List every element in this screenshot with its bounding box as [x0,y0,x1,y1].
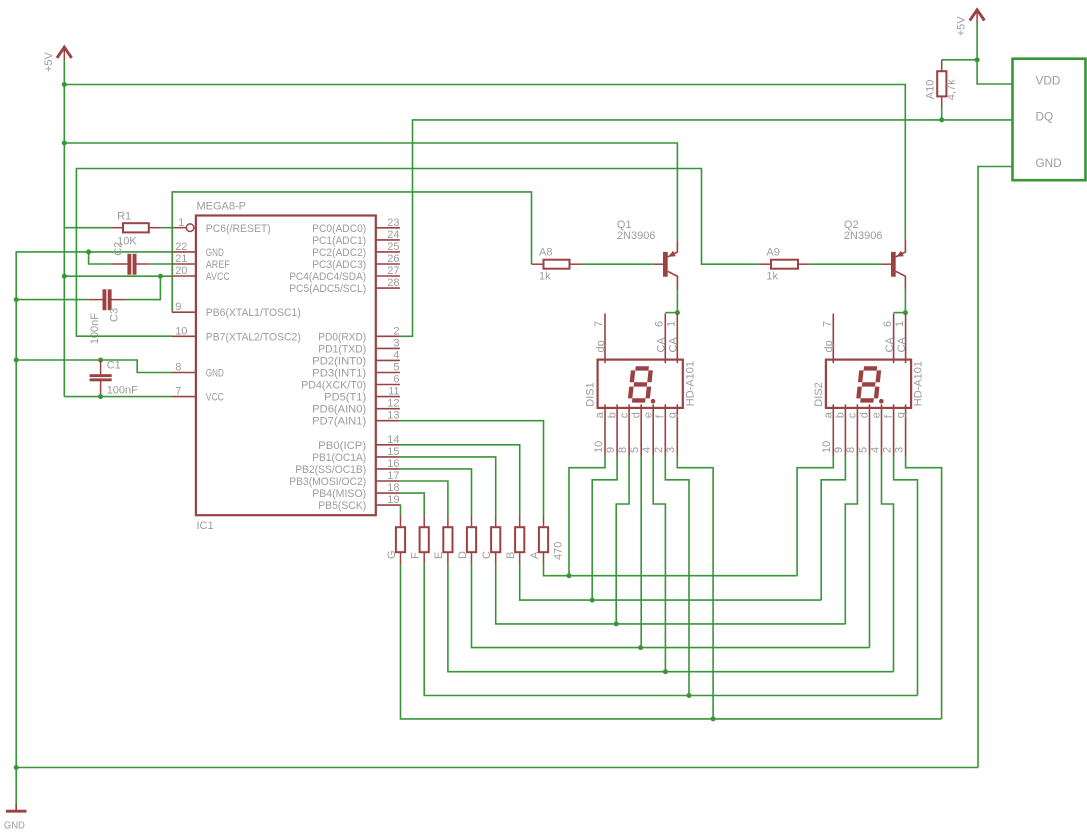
svg-text:PB2(SS/OC1B): PB2(SS/OC1B) [295,464,366,476]
svg-text:1: 1 [894,321,906,327]
wire +5V second line to Q1 emitter [64,143,677,240]
IC1 right pin 25 PC2(ADC2) [312,241,400,259]
IC1 right pin 19 PB5(SCK) [318,494,400,512]
svg-text:16: 16 [387,458,399,470]
svg-text:22: 22 [175,241,187,253]
svg-text:a: a [594,411,606,418]
svg-text:HD-A101: HD-A101 [684,361,696,406]
svg-text:4: 4 [393,349,399,361]
junction +5V rail / AVCC [62,274,67,279]
svg-text:1k: 1k [539,271,551,283]
IC1 right pin 15 PB1(OC1A) [312,446,400,464]
wire GND pin22 line [16,252,172,806]
junction C1 bottom / VCC [98,394,103,399]
IC1 right pin 2 PD0(RXD) [318,325,400,343]
junction segment b / DIS1 [590,598,595,603]
junction GND bottom [14,765,19,770]
wire PB7 net (pin10 to A9) [76,169,759,337]
svg-text:G: G [386,550,398,559]
svg-text:8: 8 [845,447,857,453]
svg-text:8: 8 [175,362,181,374]
resistor A9 [760,247,810,283]
svg-text:IC1: IC1 [197,520,214,532]
IC1 left pin 20 AVCC [172,265,230,283]
svg-text:PD7(AIN1): PD7(AIN1) [312,416,366,428]
svg-text:20: 20 [175,265,187,277]
svg-text:+5V: +5V [43,51,55,72]
DIS1 bottom pins a-g (10,9,8,5,4,2,3) [593,404,679,455]
wire IC pin 16 to resistor D [400,469,472,515]
ground symbol GND [4,804,27,832]
svg-text:17: 17 [387,470,399,482]
svg-text:e: e [871,412,883,418]
wire DIS1 c drop [616,456,629,624]
svg-text:VCC: VCC [206,392,224,404]
svg-text:8: 8 [617,447,629,453]
svg-text:5: 5 [629,447,641,453]
svg-text:dp: dp [595,340,607,352]
svg-text:4,7k: 4,7k [945,79,957,100]
svg-text:11: 11 [388,386,399,398]
capacitor C2 [112,242,149,275]
IC1 right pin 3 PD1(TXD) [318,337,400,355]
IC1 left pin 9 PB6(XTAL1/TOSC1) [172,301,301,319]
svg-text:7: 7 [175,386,181,398]
svg-text:D: D [457,551,469,559]
svg-text:GND: GND [4,820,25,832]
svg-text:24: 24 [387,229,399,241]
wire IC pin 15 to resistor C [400,457,496,515]
svg-text:26: 26 [387,253,399,265]
wire DIS2 d drop [869,456,871,648]
junction segment a / DIS1 [567,573,572,578]
svg-text:GND: GND [206,247,224,259]
svg-text:d: d [630,412,642,418]
wire +5V rail (left vertical) [63,60,65,396]
junction GND vertical / C3 [14,297,19,302]
resistor network A-G 470 [386,515,565,564]
wire DIS1 e drop [653,456,665,672]
svg-text:F: F [410,552,422,559]
svg-text:CA: CA [896,337,908,353]
supply +5V symbol (right) [956,10,985,37]
svg-text:b: b [606,412,618,418]
transistor Q1 2N3906 [617,219,678,289]
svg-text:10: 10 [175,325,187,337]
svg-text:9: 9 [175,301,181,313]
svg-text:a: a [823,411,835,418]
svg-text:PD6(AIN0): PD6(AIN0) [312,404,366,416]
wire A8 to Q1 base [581,263,654,265]
svg-text:+5V: +5V [956,16,968,37]
svg-text:12: 12 [387,398,399,410]
capacitor C1 [90,360,139,397]
wire Q2 collector to DIS2 CA [904,289,906,313]
DIS2 bottom pins a-g (10,9,8,5,4,2,3) [821,404,907,455]
svg-text:e: e [642,412,654,418]
IC1 right pin 12 PD6(AIN0) [312,398,400,416]
wire IC pin 17 to resistor E [400,481,448,515]
DIS1 name and value labels [585,361,697,407]
junction segment c / DIS1 [614,621,619,626]
wire Q1 collector to DIS1 CA [676,289,678,313]
IC1 right pin 16 PB2(SS/OC1B) [295,458,400,476]
wire sensor GND down [978,167,1013,768]
svg-text:100nF: 100nF [89,313,101,344]
svg-text:PD4(XCK/T0): PD4(XCK/T0) [301,380,366,392]
IC1 left pin 7 VCC [172,386,224,404]
wire segment f line [424,565,917,696]
svg-text:6: 6 [393,374,399,386]
svg-text:23: 23 [387,217,399,229]
svg-text:PC1(ADC1): PC1(ADC1) [312,235,366,247]
svg-text:d: d [859,412,871,418]
svg-text:6: 6 [882,321,894,327]
IC1 right pin 13 PD7(AIN1) [312,410,400,428]
wire segment c line [496,565,846,624]
junction Q1 collector / CA [675,310,680,315]
wire C3 left to GND [16,299,88,301]
resistor A10 [925,60,958,108]
wire DQ net (pin2 to sensor) [400,120,1013,336]
svg-text:A: A [529,551,541,559]
wire DIS2 e drop [882,456,894,672]
wire GND to pin8 [16,360,172,373]
wire C2 to AREF pin21 [149,263,172,265]
svg-text:9: 9 [833,447,845,453]
svg-text:PC0(ADC0): PC0(ADC0) [312,223,366,235]
svg-text:15: 15 [387,446,399,458]
svg-text:1: 1 [178,217,184,229]
wire segment d line [472,565,870,648]
wire +5V right vertical [977,23,1012,84]
svg-text:PC2(ADC2): PC2(ADC2) [312,247,366,259]
wire R1 to pin1 [161,227,171,229]
svg-text:10: 10 [593,441,605,453]
junction segment f / DIS1 [687,693,692,698]
wire DIS2 c drop [845,456,857,624]
svg-text:dp: dp [823,340,835,352]
IC1 right pin 28 PC5(ADC5/SCL) [289,277,400,295]
svg-text:g: g [895,412,907,418]
wire DIS1 d drop [640,456,642,648]
svg-text:2N3906: 2N3906 [617,230,656,242]
svg-text:28: 28 [387,277,399,289]
svg-text:PB5(SCK): PB5(SCK) [318,500,366,512]
svg-text:PD2(INT0): PD2(INT0) [312,355,366,367]
wire A9 to Q2 base [810,263,882,265]
svg-text:13: 13 [387,410,399,422]
wire PB6 net (pin9 to A8) [172,192,531,312]
svg-text:25: 25 [387,241,399,253]
junction AVCC / C3 tap [158,274,163,279]
svg-text:CA: CA [884,337,896,353]
wire segment g line [401,565,942,719]
svg-text:7: 7 [593,321,605,327]
svg-text:14: 14 [387,434,399,446]
svg-text:C: C [481,551,493,559]
wire A10 to DQ [941,108,943,120]
svg-text:5: 5 [857,447,869,453]
svg-text:PD5(T1): PD5(T1) [324,392,366,404]
svg-text:C2: C2 [112,242,124,256]
svg-text:HD-A101: HD-A101 [913,361,925,406]
junction +5V rail / second line [62,141,67,146]
svg-text:18: 18 [387,482,399,494]
svg-text:A9: A9 [766,247,779,259]
wire C3 right to AVCC [125,276,160,299]
svg-text:DIS1: DIS1 [585,382,597,406]
svg-text:DQ: DQ [1036,110,1054,124]
svg-text:27: 27 [387,265,399,277]
svg-text:GND: GND [206,368,224,380]
svg-text:10: 10 [821,441,833,453]
wire +5V to A10 [942,59,977,61]
resistor R1 [112,211,161,248]
IC1 right pin 27 PC4(ADC4/SDA) [289,265,400,283]
IC1 left pin 22 GND [172,241,224,259]
svg-text:2: 2 [881,447,893,453]
junction GND / C2 tap [86,249,91,254]
wire AVCC line [64,275,172,277]
wire IC pin 18 to resistor F [400,493,424,515]
svg-text:CA: CA [668,337,680,353]
svg-text:470: 470 [552,542,564,560]
svg-text:PB6(XTAL1/TOSC1): PB6(XTAL1/TOSC1) [206,307,301,319]
IC1 right pin 17 PB3(MOSI/OC2) [289,470,400,488]
svg-text:9: 9 [605,447,617,453]
wire +5V to R1 [64,227,112,229]
IC1 left pin 8 GND [172,362,224,380]
wire DIS2 g drop [906,456,942,719]
wire CA bridge DIS1 [665,312,677,314]
wire DIS1 g drop [677,456,713,719]
IC1 right pin 11 PD5(T1) [324,386,400,404]
junction C1 top [98,358,103,363]
DIS1 digit 8 with decimal point [630,368,655,403]
svg-text:CA: CA [656,337,668,353]
wire segment b line [520,565,822,601]
junction DQ / A10 [939,117,944,122]
junction +5V right / A10 line [975,57,980,62]
IC1 right pin 5 PD3(INT1) [312,362,400,380]
svg-text:B: B [505,552,517,559]
svg-text:2N3906: 2N3906 [844,230,883,242]
svg-text:PD0(RXD): PD0(RXD) [318,331,366,343]
svg-text:100nF: 100nF [107,384,138,396]
DIS2 digit 8 with decimal point [858,368,883,403]
transistor Q2 2N3906 [844,219,906,289]
svg-text:AVCC: AVCC [206,271,230,283]
svg-text:c: c [847,412,859,418]
junction +5V rail / top line [62,82,67,87]
svg-text:R1: R1 [117,211,131,223]
wire +5V top line to Q2 emitter [64,85,905,240]
svg-text:3: 3 [665,447,677,453]
svg-text:A10: A10 [925,80,937,100]
svg-text:1k: 1k [766,271,778,283]
wire C2 left to GND [89,252,112,264]
svg-text:VDD: VDD [1036,74,1061,88]
svg-text:PB3(MOSI/OC2): PB3(MOSI/OC2) [289,476,366,488]
IC IC1 MEGA8-P body [196,201,376,533]
wire DIS2 b drop [821,456,845,601]
svg-text:2: 2 [393,325,399,337]
svg-text:19: 19 [387,494,399,506]
IC1 right pin 18 PB4(MISO) [312,482,400,500]
wire DIS2 f drop [894,456,918,696]
wire IC pin 19 to resistor G [399,505,402,515]
svg-text:5: 5 [393,362,399,374]
supply +5V symbol (left) [43,47,72,72]
wire CA bridge DIS2 [894,312,906,314]
svg-text:PD3(INT1): PD3(INT1) [312,368,366,380]
IC1 left pin 10 PB7(XTAL2/TOSC2) [172,325,301,343]
svg-text:3: 3 [893,447,905,453]
svg-text:PB0(ICP): PB0(ICP) [318,440,366,452]
svg-text:c: c [618,412,630,418]
junction segment g / DIS1 [711,716,716,721]
svg-text:21: 21 [175,253,187,265]
sensor U2 box (VDD/DQ/GND) [1013,59,1086,181]
svg-text:C1: C1 [107,360,121,372]
wire DIS2 a drop [797,456,833,576]
IC1 right pin 26 PC3(ADC3) [312,253,400,271]
IC1 pin 1 PC6(/RESET) name and number [178,217,271,235]
DIS2 name and value labels [813,361,925,407]
svg-text:PC3(ADC3): PC3(ADC3) [312,259,366,271]
display DIS2 HD-A101 box [826,360,911,408]
svg-text:3: 3 [393,337,399,349]
resistor A8 [532,247,582,283]
wire DIS1 a drop [569,456,605,576]
junction segment d / DIS1 [638,645,643,650]
svg-text:PC4(ADC4/SDA): PC4(ADC4/SDA) [289,271,366,283]
junction GND vertical / C1 top line [14,358,19,363]
svg-text:g: g [667,412,679,418]
svg-text:PB1(OC1A): PB1(OC1A) [312,452,366,464]
svg-text:PD1(TXD): PD1(TXD) [318,343,366,355]
DIS1 top pins dp/CA/CA (7,6,1) [593,314,680,364]
IC1 right pin 4 PD2(INT0) [312,349,400,367]
svg-text:A8: A8 [539,247,552,259]
IC1 right pin 6 PD4(XCK/T0) [301,374,400,392]
wire DIS1 f drop [665,456,689,696]
svg-text:DIS2: DIS2 [813,382,825,406]
IC1 right pin 14 PB0(ICP) [318,434,400,452]
wire IC pin 13 to resistor A [400,421,544,516]
wire segment e line [448,565,894,672]
IC1 right pin 24 PC1(ADC1) [312,229,400,247]
wire VCC pin7 line [64,396,172,398]
svg-text:E: E [433,552,445,559]
junction segment e / DIS1 [663,669,668,674]
DIS2 top pins dp/CA/CA (7,6,1) [822,314,909,364]
svg-text:PB7(XTAL2/TOSC2): PB7(XTAL2/TOSC2) [206,331,301,343]
wire GND bottom line [16,767,978,769]
svg-text:PC6(/RESET): PC6(/RESET) [206,223,271,235]
wire DIS1 b drop [592,456,617,601]
svg-text:AREF: AREF [206,259,230,271]
junction Q2 collector / CA [903,310,908,315]
svg-text:MEGA8-P: MEGA8-P [197,201,247,213]
svg-text:1: 1 [666,321,678,327]
svg-text:7: 7 [822,321,834,327]
svg-text:4: 4 [869,447,881,453]
svg-text:GND: GND [1036,156,1062,170]
svg-text:PC5(ADC5/SCL): PC5(ADC5/SCL) [289,283,366,295]
capacitor C3 [88,289,125,344]
svg-text:4: 4 [641,447,653,453]
IC1 left pin 21 AREF [172,253,230,271]
pin 1 stub with bubble (PC6/RESET) [172,224,194,232]
svg-text:PB4(MISO): PB4(MISO) [312,488,366,500]
svg-text:6: 6 [654,321,666,327]
svg-text:2: 2 [653,447,665,453]
svg-text:b: b [835,412,847,418]
svg-text:C3: C3 [109,308,121,322]
display DIS1 HD-A101 box [598,360,683,408]
IC1 right pin 23 PC0(ADC0) [312,217,400,235]
wire IC pin 14 to resistor B [400,445,520,515]
wire segment a line [544,565,798,576]
